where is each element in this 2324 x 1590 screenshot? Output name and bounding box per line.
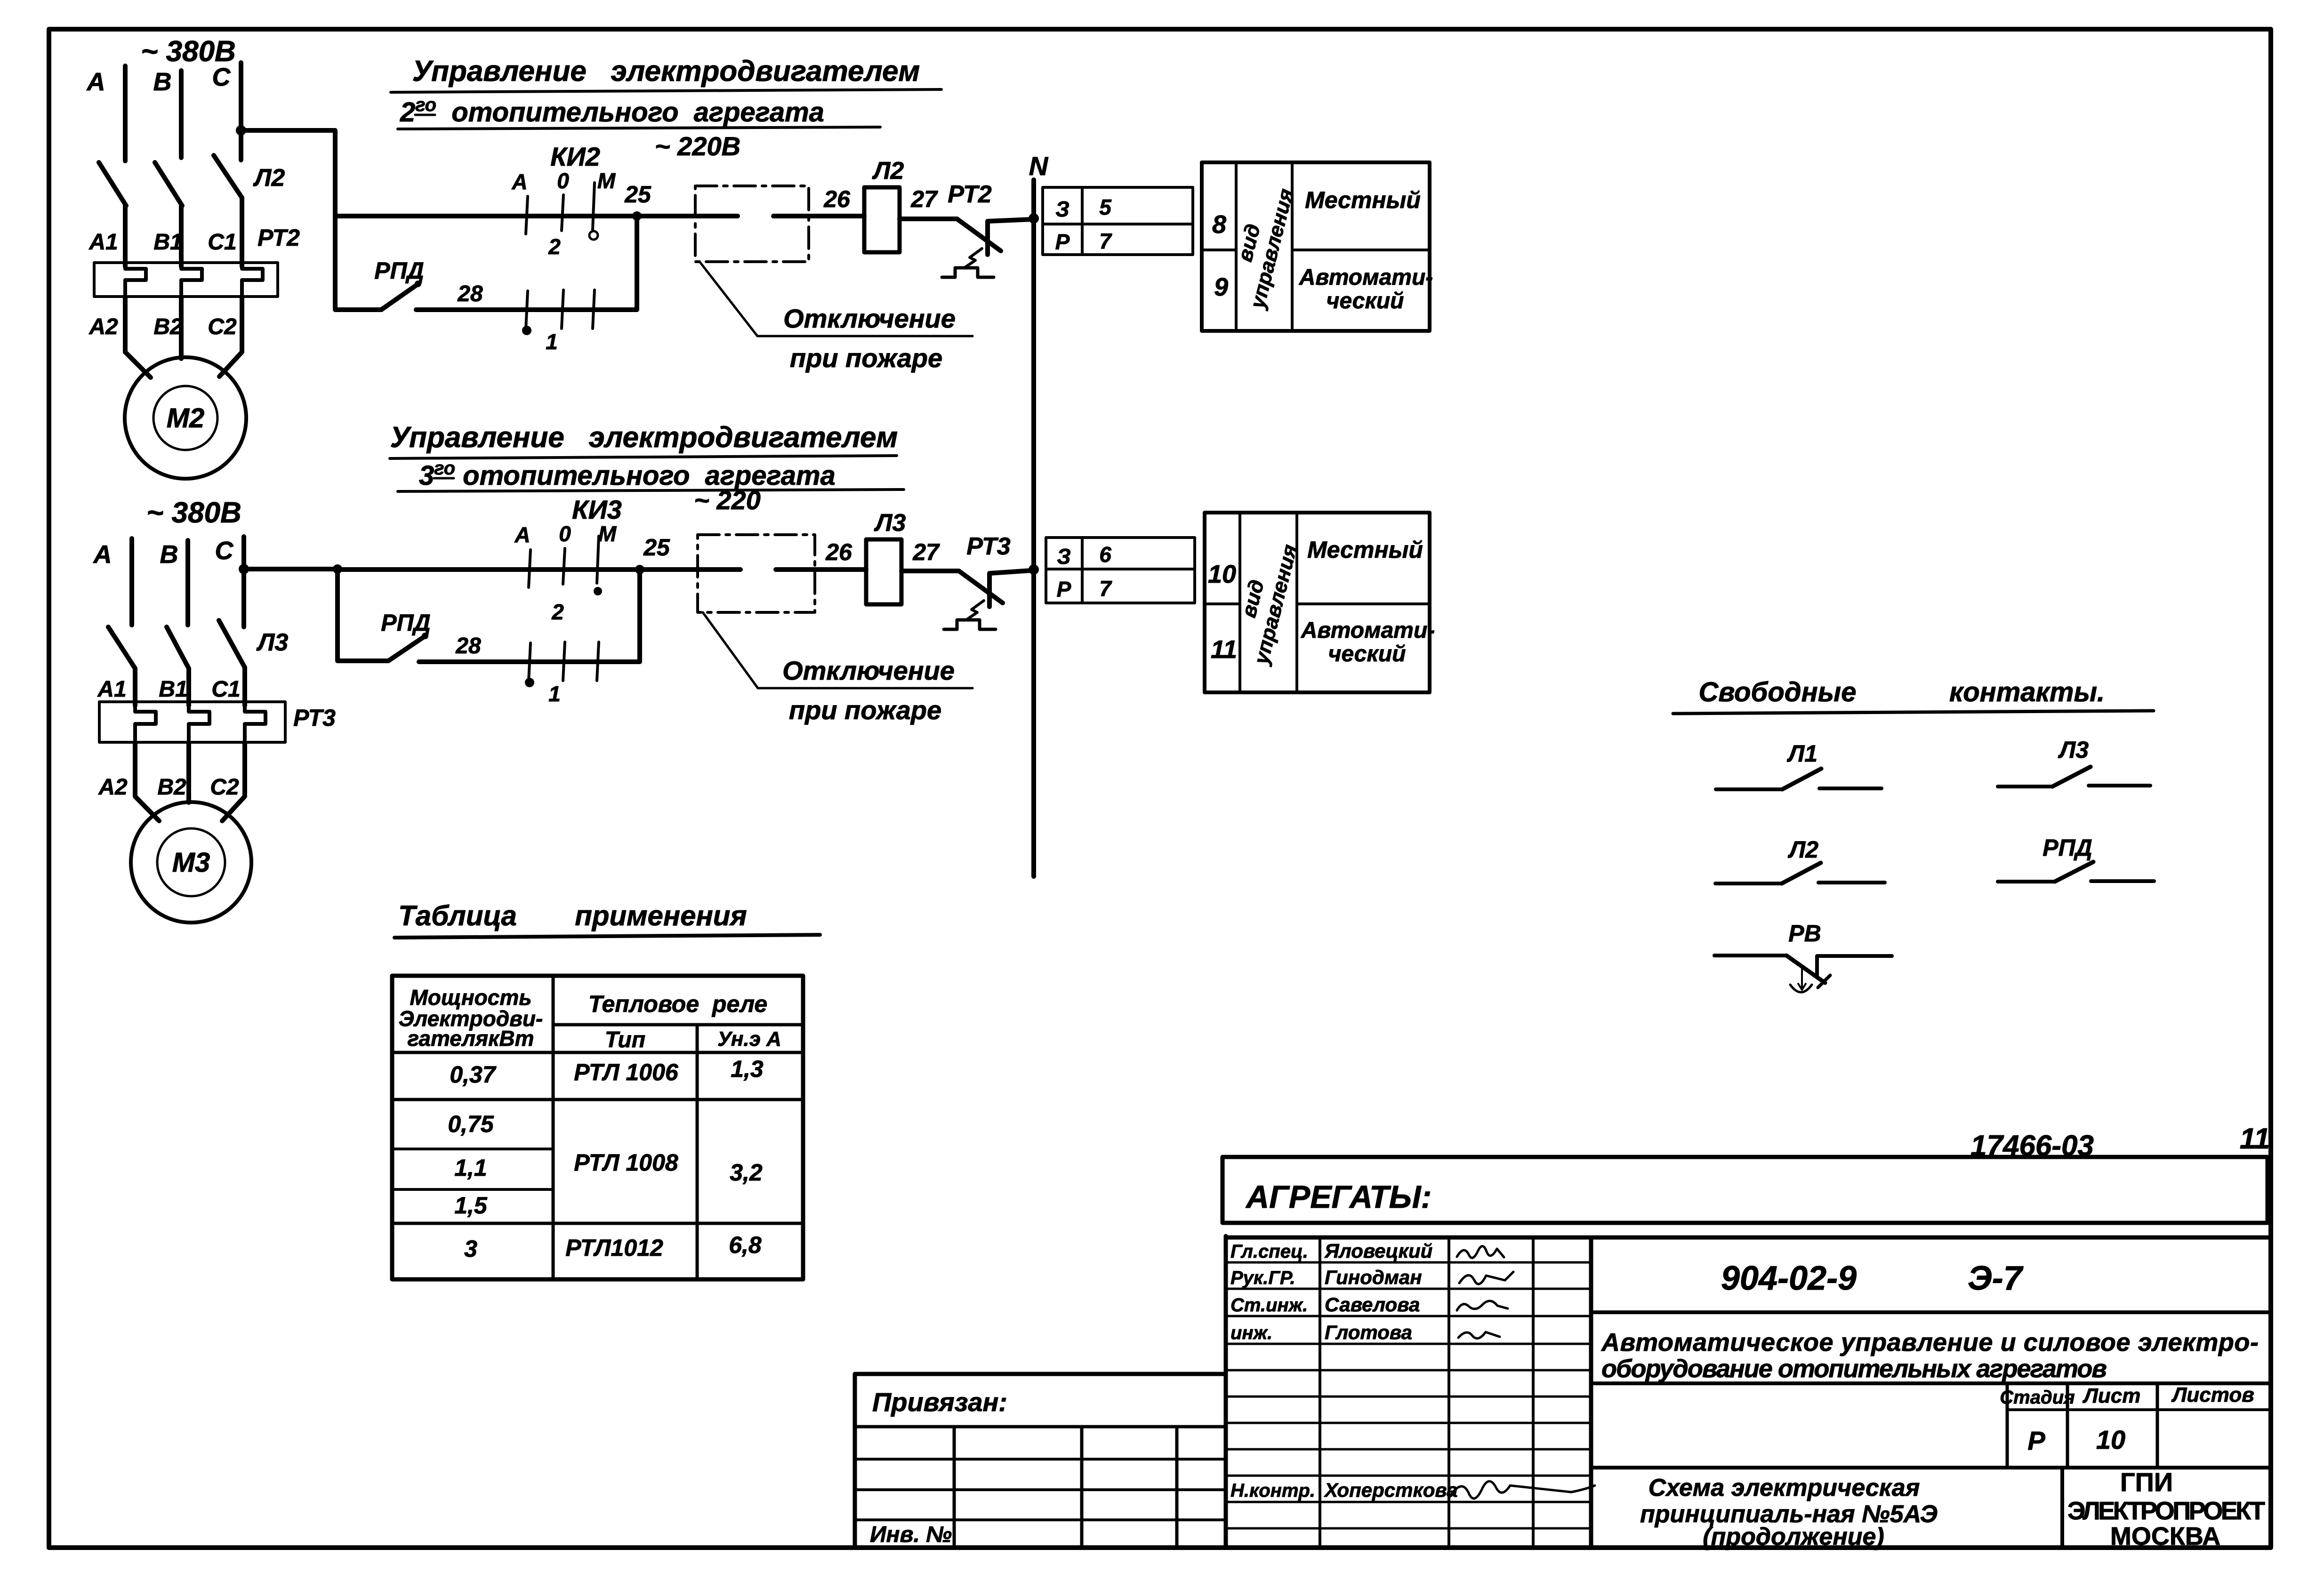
svg-text:Л2: Л2 <box>872 157 904 185</box>
contactor coil L3 <box>866 539 901 604</box>
wire from phase C junction to control branch (circuit 3) <box>244 567 338 571</box>
phase label A (circuit 3) <box>93 540 112 569</box>
svg-text:11: 11 <box>1211 635 1237 664</box>
label RT2 at thermal relay <box>257 225 300 251</box>
svg-text:Ст.инж.: Ст.инж. <box>1230 1295 1308 1316</box>
svg-text:В1: В1 <box>153 230 182 255</box>
svg-text:5: 5 <box>1099 195 1112 219</box>
svg-text:28: 28 <box>457 281 483 306</box>
svg-text:М2: М2 <box>167 403 205 434</box>
svg-text:Таблица: Таблица <box>398 900 517 932</box>
svg-text:3: 3 <box>464 1236 477 1262</box>
thermal relay RT2 box <box>94 263 278 297</box>
free contact RV (time relay, delayed) <box>1714 920 1892 992</box>
node N junction dot (circuit 3) <box>1029 564 1039 575</box>
wire phase A top (circuit 2) <box>123 66 128 161</box>
svg-text:Отключение: Отключение <box>783 304 956 333</box>
KI3 row2 tick M <box>597 642 599 681</box>
svg-text:Р: Р <box>2027 1426 2045 1455</box>
contactor L2 main contact phase A <box>99 162 126 206</box>
title block signature names <box>1230 1240 1458 1501</box>
thermal relay RT3 heater element phase B <box>189 706 209 742</box>
node 27 label (circuit 3) <box>912 539 940 565</box>
svg-text:26: 26 <box>823 186 851 212</box>
wire A2 to motor M2 <box>125 297 151 377</box>
note: disconnect on fire (circuit 3) <box>782 656 955 725</box>
svg-text:Инв. №: Инв. № <box>870 1522 952 1547</box>
svg-text:Тепловое реле: Тепловое реле <box>588 991 767 1017</box>
svg-text:27: 27 <box>910 186 938 212</box>
svg-text:Хоперсткова: Хоперсткова <box>1324 1479 1458 1501</box>
svg-text:~ 220: ~ 220 <box>694 485 761 515</box>
svg-text:1: 1 <box>546 329 558 354</box>
svg-text:В1: В1 <box>159 677 187 702</box>
wire A2 to motor M3 <box>135 742 159 821</box>
svg-text:С1: С1 <box>211 677 240 702</box>
free contact L3 <box>1998 737 2150 787</box>
thermal relay RT3 box <box>99 702 285 742</box>
svg-text:А: А <box>93 540 112 569</box>
units box AGREGATY <box>1222 1157 2268 1223</box>
node 28 label (circuit 2) <box>457 281 483 306</box>
wire B1 (circuit 3) <box>186 668 191 706</box>
svg-text:N: N <box>1029 151 1049 181</box>
leader line to fire note (circuit 3) <box>703 612 973 688</box>
svg-text:0: 0 <box>559 522 571 546</box>
node 25 label (circuit 3) <box>643 534 670 561</box>
svg-text:Свободные: Свободные <box>1699 677 1857 707</box>
KI2 row2 tick 0 <box>562 290 563 329</box>
phase label B (circuit 2) <box>153 68 172 96</box>
svg-text:1,5: 1,5 <box>454 1192 488 1219</box>
application table title <box>394 900 820 938</box>
note: disconnect on fire (circuit 2) <box>783 304 956 373</box>
drawing name cell <box>1640 1468 2062 1550</box>
svg-text:Р: Р <box>1057 577 1071 602</box>
svg-text:А1: А1 <box>88 230 118 255</box>
svg-text:Местный: Местный <box>1307 537 1423 563</box>
svg-text:1,1: 1,1 <box>454 1155 487 1181</box>
RPD contact branch wire (circuit 3) <box>333 564 388 661</box>
svg-text:Л3: Л3 <box>256 629 289 656</box>
label C1 (circuit 3) <box>211 677 240 702</box>
free contact L2 <box>1715 836 1885 883</box>
svg-text:оборудование отопительных агре: оборудование отопительных агрегатов <box>1601 1355 2107 1383</box>
heading: free contacts <box>1673 677 2154 714</box>
svg-text:Рук.ГР.: Рук.ГР. <box>1230 1268 1295 1288</box>
svg-text:гателякВт: гателякВт <box>407 1026 534 1051</box>
contactor L3 main contact phase A <box>108 627 135 668</box>
svg-text:2го отопительного агрегата: 2го отопительного агрегата <box>400 95 824 128</box>
wire C2 to motor M2 <box>219 297 242 377</box>
svg-text:МОСКВА: МОСКВА <box>2110 1522 2220 1550</box>
label C2 <box>208 314 237 339</box>
label B1 (circuit 3) <box>159 677 187 702</box>
KI3 row2 terminal dot <box>525 678 534 687</box>
node: junction on phase C feeding control circuit 2 <box>236 125 246 136</box>
svg-text:С2: С2 <box>208 314 237 339</box>
wire from pozhar contact to coil L3 <box>776 567 866 572</box>
svg-text:Л1: Л1 <box>1787 740 1817 767</box>
thermal relay RT2 heater element phase B <box>181 266 202 297</box>
wire phase C top (circuit 2) <box>239 63 243 160</box>
RPD label (circuit 2) <box>374 257 424 284</box>
svg-text:Э-7: Э-7 <box>1968 1260 2024 1297</box>
svg-text:2: 2 <box>551 600 564 624</box>
organization GPI ELEKTROPROEKT MOSKVA <box>2067 1467 2265 1550</box>
svg-text:Отключение: Отключение <box>782 656 955 685</box>
RPD contact blade (circuit 2) <box>381 281 421 310</box>
label B1 <box>153 230 182 255</box>
KI3 row1 tick A <box>529 550 531 587</box>
svg-text:11: 11 <box>2240 1123 2270 1155</box>
KI2 position label A <box>511 169 527 194</box>
label A1 (circuit 3) <box>97 677 126 702</box>
svg-text:6,8: 6,8 <box>729 1232 762 1258</box>
svg-text:3,2: 3,2 <box>730 1159 763 1186</box>
svg-text:~ 380В: ~ 380В <box>146 497 241 529</box>
svg-text:Автомати-: Автомати- <box>1301 618 1435 643</box>
label L2 at coil <box>872 157 904 185</box>
wire B1 (circuit 2) <box>179 206 184 266</box>
control-mode table (circuit 2) 8/9 local/automatic <box>1202 162 1433 331</box>
RPD label (circuit 3) <box>381 610 430 636</box>
svg-text:Р: Р <box>1055 230 1070 254</box>
svg-text:РВ: РВ <box>1788 920 1821 947</box>
svg-text:Управление электродвигателем: Управление электродвигателем <box>412 55 920 88</box>
svg-text:0: 0 <box>557 169 569 193</box>
svg-text:1,3: 1,3 <box>731 1056 764 1082</box>
KI3 row1 tick 0 <box>563 548 565 584</box>
svg-text:М: М <box>597 169 616 193</box>
KI2 row2 tick M <box>593 290 595 329</box>
KI2 label 2 (row1) <box>548 234 561 259</box>
svg-text:Управление электродвигателем: Управление электродвигателем <box>390 421 898 454</box>
wire phase B top (circuit 2) <box>179 71 184 158</box>
stadiya/list/listov sub-table <box>1591 1383 2271 1468</box>
KI2 small circle below M tick <box>589 231 598 240</box>
KI2 row1 tick M <box>593 183 595 230</box>
contactor L2 main contact phase C <box>214 155 242 198</box>
wire C1 (circuit 3) <box>242 667 247 706</box>
svg-text:Л2: Л2 <box>1788 836 1818 863</box>
label L3 at coil <box>874 509 906 537</box>
heading: control of electric motor of 3rd heating unit <box>390 421 904 491</box>
svg-text:РТ2: РТ2 <box>948 181 991 208</box>
svg-text:1: 1 <box>548 682 561 706</box>
svg-text:Схема электрическая: Схема электрическая <box>1649 1474 1920 1502</box>
svg-text:Гинодман: Гинодман <box>1325 1266 1422 1288</box>
KI2 position label M <box>597 169 616 193</box>
KI2 row2 tick A <box>526 291 528 329</box>
svg-text:В: В <box>160 540 178 569</box>
node 27 label (circuit 2) <box>910 186 938 212</box>
svg-text:0,75: 0,75 <box>448 1111 494 1137</box>
svg-text:М3: М3 <box>172 847 210 878</box>
svg-text:2: 2 <box>548 234 561 259</box>
label B2 <box>153 314 183 339</box>
svg-text:РТЛ 1008: РТЛ 1008 <box>574 1149 678 1176</box>
svg-text:инж.: инж. <box>1230 1323 1272 1343</box>
label A1 <box>88 230 118 255</box>
svg-text:С2: С2 <box>210 775 239 800</box>
contactor L3 main contact phase C <box>219 620 245 667</box>
phase label A (circuit 2) <box>86 68 105 96</box>
label ~220V (circuit 2) <box>655 131 740 161</box>
svg-text:контакты.: контакты. <box>1949 677 2105 707</box>
svg-text:при пожаре: при пожаре <box>789 695 941 725</box>
svg-text:Глотова: Глотова <box>1325 1321 1412 1343</box>
svg-text:10: 10 <box>1208 560 1236 588</box>
privyazan box <box>855 1374 1226 1548</box>
motor M3 <box>131 802 251 923</box>
svg-text:применения: применения <box>575 900 747 932</box>
label ~380V bus (circuit 3) <box>146 497 241 529</box>
project title text <box>1591 1328 2271 1383</box>
title block signatures columns <box>1226 1236 2271 1548</box>
contactor L3 main contact phase B <box>167 627 189 668</box>
KI3 row1 tick M <box>597 536 599 583</box>
label RT3 at thermal relay <box>293 705 336 731</box>
svg-text:Н.контр.: Н.контр. <box>1230 1480 1315 1501</box>
wire from node 25 down to KI2 row 2 <box>416 216 637 310</box>
label ~380V bus (circuit 2) <box>141 35 236 68</box>
svg-text:8: 8 <box>1212 210 1226 239</box>
node N junction dot (circuit 2) <box>1029 213 1039 224</box>
KI3 row2 tick A <box>529 643 531 682</box>
wire coil L2 to RT2 contact <box>900 217 957 221</box>
svg-text:А: А <box>86 68 105 96</box>
terminal table Z6/R7 (circuit 3) <box>1046 538 1195 603</box>
application table header text <box>399 985 781 1052</box>
node 25 junction dot <box>632 211 642 221</box>
RT2 thermal element hook <box>942 249 994 277</box>
label B2 (circuit 3) <box>157 775 186 800</box>
wire C2 to motor M3 <box>222 742 245 821</box>
KI3 position label A <box>514 522 530 547</box>
KI3 label 1 (row2) <box>548 682 561 706</box>
project code 904-02-9 E-7 <box>1591 1260 2271 1312</box>
svg-text:А: А <box>514 522 530 547</box>
svg-text:РПД: РПД <box>2043 835 2092 861</box>
svg-text:РТ3: РТ3 <box>293 705 336 731</box>
wire B2 to motor M2 <box>179 297 184 359</box>
document number 17466-03 <box>1970 1130 2094 1162</box>
wire phase C top (circuit 3) <box>241 537 246 627</box>
leader line to fire note (circuit 2) <box>700 262 973 336</box>
fire-disconnect dashed box (circuit 2) <box>695 186 809 262</box>
label L2 at main contacts <box>253 164 285 192</box>
heading: control of electric motor of 2nd heating unit <box>391 55 941 129</box>
control wire row 1 circuit 2 from branch to pozhar contact <box>335 214 738 218</box>
wire coil L3 to RT3 contact <box>901 569 959 573</box>
wire C1 (circuit 2) <box>240 198 244 266</box>
label RT3 at break contact <box>966 533 1010 560</box>
svg-text:А2: А2 <box>88 314 118 339</box>
KI3 row2 tick 0 <box>563 642 565 681</box>
free contact RPD <box>1998 835 2154 882</box>
RT2 thermal break contact blade <box>957 219 1001 251</box>
svg-text:Л3: Л3 <box>874 509 906 537</box>
node 26 label (circuit 2) <box>823 186 851 212</box>
label ~220 (circuit 3) <box>694 485 761 515</box>
switch KI3 label <box>572 495 622 524</box>
label RT2 at break contact <box>948 181 991 208</box>
wire phase B top (circuit 3) <box>185 540 190 625</box>
control-mode table (circuit 3) 10/11 local/automatic <box>1205 513 1435 692</box>
svg-text:3го отопительного агрегата: 3го отопительного агрегата <box>419 458 836 491</box>
svg-text:ЭЛЕКТРОПРОЕКТ: ЭЛЕКТРОПРОЕКТ <box>2067 1497 2265 1525</box>
svg-text:Яловецкий: Яловецкий <box>1324 1240 1432 1262</box>
svg-text:ческий: ческий <box>1328 642 1406 667</box>
svg-text:при пожаре: при пожаре <box>790 343 942 373</box>
svg-text:С1: С1 <box>208 230 236 255</box>
wire B2 to motor M3 <box>186 742 191 803</box>
svg-text:Тип: Тип <box>605 1028 645 1052</box>
KI2 row2 terminal dot <box>522 326 531 335</box>
svg-text:(продолжение): (продолжение) <box>1703 1523 1884 1550</box>
sheet number 11 top right <box>2240 1123 2270 1155</box>
phase label C (circuit 2) <box>212 63 231 91</box>
svg-text:КИ2: КИ2 <box>550 142 600 171</box>
application table data <box>448 1056 764 1262</box>
thermal relay RT3 heater element phase A <box>135 706 156 742</box>
thermal relay RT2 heater element phase A <box>125 266 146 297</box>
svg-text:АГРЕГАТЫ:: АГРЕГАТЫ: <box>1245 1179 1431 1215</box>
svg-text:26: 26 <box>825 539 852 565</box>
svg-text:27: 27 <box>912 539 940 565</box>
svg-text:28: 28 <box>455 634 481 658</box>
label A2 (circuit 3) <box>98 775 128 800</box>
wire RT3 contact to N <box>989 570 1031 607</box>
svg-text:Стадия: Стадия <box>2000 1387 2075 1408</box>
svg-text:РТ2: РТ2 <box>257 225 300 251</box>
svg-text:РТЛ 1006: РТЛ 1006 <box>574 1059 679 1085</box>
svg-text:Савелова: Савелова <box>1325 1293 1420 1316</box>
node: junction on phase C feeding control circuit 3 <box>239 564 249 574</box>
signatures (handwritten squiggles) <box>1450 1246 1595 1498</box>
KI3 filled dot below M tick <box>594 587 602 595</box>
motor M2 <box>125 357 246 479</box>
svg-text:З: З <box>1055 197 1070 221</box>
svg-text:Ун.э А: Ун.э А <box>717 1028 781 1051</box>
wire from node 25 down to KI3 row 2 <box>419 570 640 662</box>
node 28 label (circuit 3) <box>455 634 481 658</box>
control wire row 1 circuit 3 <box>338 567 740 572</box>
svg-text:В2: В2 <box>153 314 183 339</box>
contactor L2 main contact phase B <box>155 162 182 206</box>
svg-text:6: 6 <box>1099 542 1111 567</box>
svg-text:С: С <box>212 63 231 91</box>
thermal relay RT2 heater element phase C <box>242 266 263 297</box>
wire phase A top (circuit 3) <box>129 538 134 625</box>
svg-text:КИ3: КИ3 <box>572 495 622 524</box>
svg-text:Местный: Местный <box>1305 187 1421 213</box>
KI2 label 1 (row2) <box>546 329 558 354</box>
KI2 position label 0 <box>557 169 569 193</box>
svg-text:А: А <box>511 169 527 194</box>
node 25 junction dot (circuit 3) <box>635 565 644 574</box>
svg-text:25: 25 <box>643 534 670 561</box>
svg-text:А1: А1 <box>97 677 126 702</box>
svg-text:В2: В2 <box>157 775 186 800</box>
fire-disconnect dashed box (circuit 3) <box>698 535 815 612</box>
wire A1 (circuit 3) <box>133 668 137 706</box>
svg-text:Автомати-: Автомати- <box>1299 265 1433 290</box>
svg-text:Автоматическое управление и си: Автоматическое управление и силовое элек… <box>1600 1328 2259 1357</box>
svg-text:7: 7 <box>1099 229 1112 253</box>
wire from phase C junction to control branch (circuit 2) <box>241 130 335 216</box>
neutral line N <box>1031 180 1036 876</box>
svg-text:З: З <box>1057 544 1071 569</box>
svg-text:Привязан:: Привязан: <box>872 1387 1007 1417</box>
svg-text:904-02-9: 904-02-9 <box>1721 1260 1857 1297</box>
node 25 label <box>624 181 651 208</box>
svg-text:Л2: Л2 <box>253 164 285 192</box>
svg-text:ческий: ческий <box>1327 289 1404 313</box>
KI3 position label M <box>598 522 617 546</box>
svg-text:А2: А2 <box>98 775 128 800</box>
thermal relay RT3 heater element phase C <box>245 706 265 742</box>
KI2 row1 tick 0 <box>562 195 563 231</box>
phase label C (circuit 3) <box>215 537 234 565</box>
wire from pozhar contact to coil L2 (circuit 2) <box>773 214 864 218</box>
svg-text:7: 7 <box>1099 576 1112 601</box>
svg-text:10: 10 <box>2096 1425 2125 1454</box>
switch KI2 label <box>550 142 600 171</box>
svg-text:М: М <box>598 522 617 546</box>
wire 28 segment (circuit 2) <box>416 307 502 312</box>
svg-text:В: В <box>153 68 172 96</box>
KI3 label 2 (row1) <box>551 600 564 624</box>
svg-text:25: 25 <box>624 181 651 208</box>
RT3 thermal element hook <box>944 601 996 629</box>
wire A1 (circuit 2) <box>123 206 128 266</box>
svg-text:Л3: Л3 <box>2058 737 2089 763</box>
RPD contact branch wire (circuit 2) <box>335 216 381 310</box>
label N <box>1029 151 1049 181</box>
svg-text:Лист: Лист <box>2083 1384 2141 1407</box>
svg-text:9: 9 <box>1214 273 1228 301</box>
phase label B (circuit 3) <box>160 540 178 569</box>
svg-text:0,37: 0,37 <box>450 1061 497 1088</box>
svg-text:РПД: РПД <box>381 610 430 636</box>
contactor coil L2 <box>864 187 900 252</box>
KI2 row1 tick A <box>526 196 528 234</box>
label C2 (circuit 3) <box>210 775 239 800</box>
RPD contact blade (circuit 3) <box>388 633 428 661</box>
svg-text:~ 220В: ~ 220В <box>655 131 740 161</box>
svg-text:С: С <box>215 537 234 565</box>
svg-text:Гл.спец.: Гл.спец. <box>1230 1241 1308 1262</box>
label A2 <box>88 314 118 339</box>
node 26 label (circuit 3) <box>825 539 852 565</box>
svg-text:ГПИ: ГПИ <box>2120 1467 2173 1497</box>
terminal table Z5/R7 (circuit 2) <box>1043 187 1193 255</box>
svg-text:Листов: Листов <box>2171 1383 2254 1406</box>
application table grid <box>392 976 803 1279</box>
free contact L1 <box>1716 740 1882 789</box>
KI3 position label 0 <box>559 522 571 546</box>
svg-text:РТ3: РТ3 <box>966 533 1010 560</box>
wire RT2 contact to N (circuit 2) <box>988 219 1031 255</box>
svg-text:РПД: РПД <box>374 257 424 284</box>
svg-text:РТЛ1012: РТЛ1012 <box>565 1235 663 1261</box>
wire 28 segment (circuit 3) <box>419 659 505 664</box>
label L3 at main contacts <box>256 629 289 656</box>
RT3 thermal break contact blade <box>959 571 1003 603</box>
label C1 <box>208 230 236 255</box>
